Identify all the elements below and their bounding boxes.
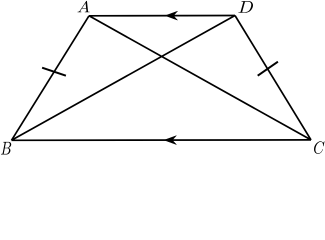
arrowhead on BC (164, 136, 176, 145)
wire BC (bottom side) (12, 139, 312, 141)
arrowhead on AD (165, 11, 177, 20)
tick mark on AB (42, 68, 66, 76)
wire BD (diagonal) (12, 16, 236, 141)
wire AC (diagonal) (89, 16, 311, 140)
wire AB (left leg) (12, 16, 90, 141)
node label A (78, 1, 90, 12)
wire AD (top side) (89, 15, 235, 17)
node label C (314, 141, 325, 154)
tick mark on DC (258, 62, 278, 76)
node label B (1, 142, 11, 155)
wire DC (right leg) (235, 16, 311, 140)
node label D (238, 1, 253, 13)
